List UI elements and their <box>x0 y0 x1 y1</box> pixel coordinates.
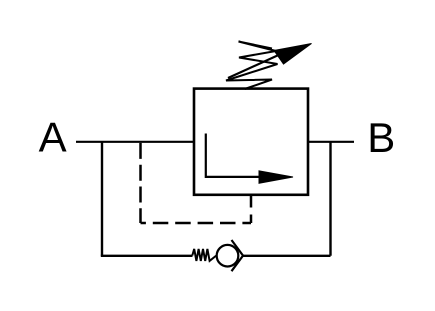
svg-text:A: A <box>39 114 67 161</box>
svg-text:B: B <box>367 114 395 161</box>
